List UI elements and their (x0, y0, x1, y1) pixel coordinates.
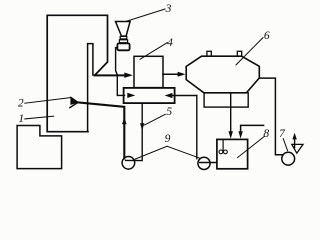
flow arrow up on fuel line (122, 117, 127, 124)
fan housing circle (item 7) (282, 152, 295, 165)
furnace chamber outline (item 1 body) (47, 15, 107, 131)
leader label 6 (236, 38, 263, 65)
feeder collar ring 1 (120, 36, 127, 39)
conveyor box (item 5) (124, 88, 175, 103)
feed arrow into box 5 (left) (127, 93, 135, 98)
dryer top vent square right (237, 51, 241, 56)
burner nozzle (item 2) (71, 97, 78, 104)
dryer top vent square left (207, 51, 211, 56)
line right pump to tank (200, 162, 217, 164)
inner duct partition (88, 44, 93, 132)
leader label 8 (238, 136, 265, 157)
stirrer blade right (224, 150, 228, 154)
arrow box4 to dryer 6 (163, 73, 179, 75)
exhaust up arrow (294, 138, 296, 148)
stirrer shaft (222, 139, 224, 150)
down pipe from box5 to pump (126, 103, 143, 161)
water feed line and arrow into tank (right) (241, 125, 264, 132)
return line from dryer into box 5 (right) (171, 95, 197, 97)
svg-text:5: 5 (166, 106, 172, 118)
feed pipe down from feeder (116, 48, 125, 96)
drum dryer body (item 6) (186, 56, 259, 93)
dryer base divider (230, 93, 232, 107)
exhaust pipe dryer to fan (259, 78, 282, 155)
mill box (item 4) (134, 56, 163, 87)
leader label 2 (25, 98, 71, 104)
leader label 7 (283, 139, 287, 151)
leader label 5 (145, 114, 166, 125)
feeder collar ring 2 (119, 40, 127, 43)
leader label 4 (140, 43, 167, 60)
pump circle left (item 9) (122, 157, 135, 170)
svg-text:9: 9 (165, 133, 171, 145)
pump circle right (item 9) (198, 157, 210, 169)
hopper funnel (item 3) (116, 22, 131, 37)
fan outlet cone (292, 144, 303, 153)
svg-text:3: 3 (165, 3, 172, 15)
discharge arrow into tank (left) (230, 107, 232, 132)
flow arrow down on pipe (140, 123, 144, 130)
slurry tank (item 8) (217, 139, 248, 168)
svg-text:6: 6 (264, 30, 270, 42)
feed line down to right pump (196, 96, 198, 159)
fuel line (thick) burner to pump (78, 102, 124, 158)
svg-text:8: 8 (263, 128, 269, 140)
svg-text:2: 2 (18, 98, 24, 110)
feeder valve box (117, 43, 129, 50)
gas arrow chute to box 4 (thick) (95, 74, 125, 76)
stirrer blade left (219, 150, 223, 154)
leader label 9 to left pump (135, 146, 167, 159)
leader label 1 (25, 116, 54, 119)
dryer base box (204, 93, 248, 107)
leader label 9 to right pump (167, 146, 200, 158)
svg-text:4: 4 (167, 37, 173, 49)
svg-text:1: 1 (18, 113, 24, 125)
ash pit block (bottom left) (17, 126, 62, 169)
leader label 3 (127, 9, 166, 21)
